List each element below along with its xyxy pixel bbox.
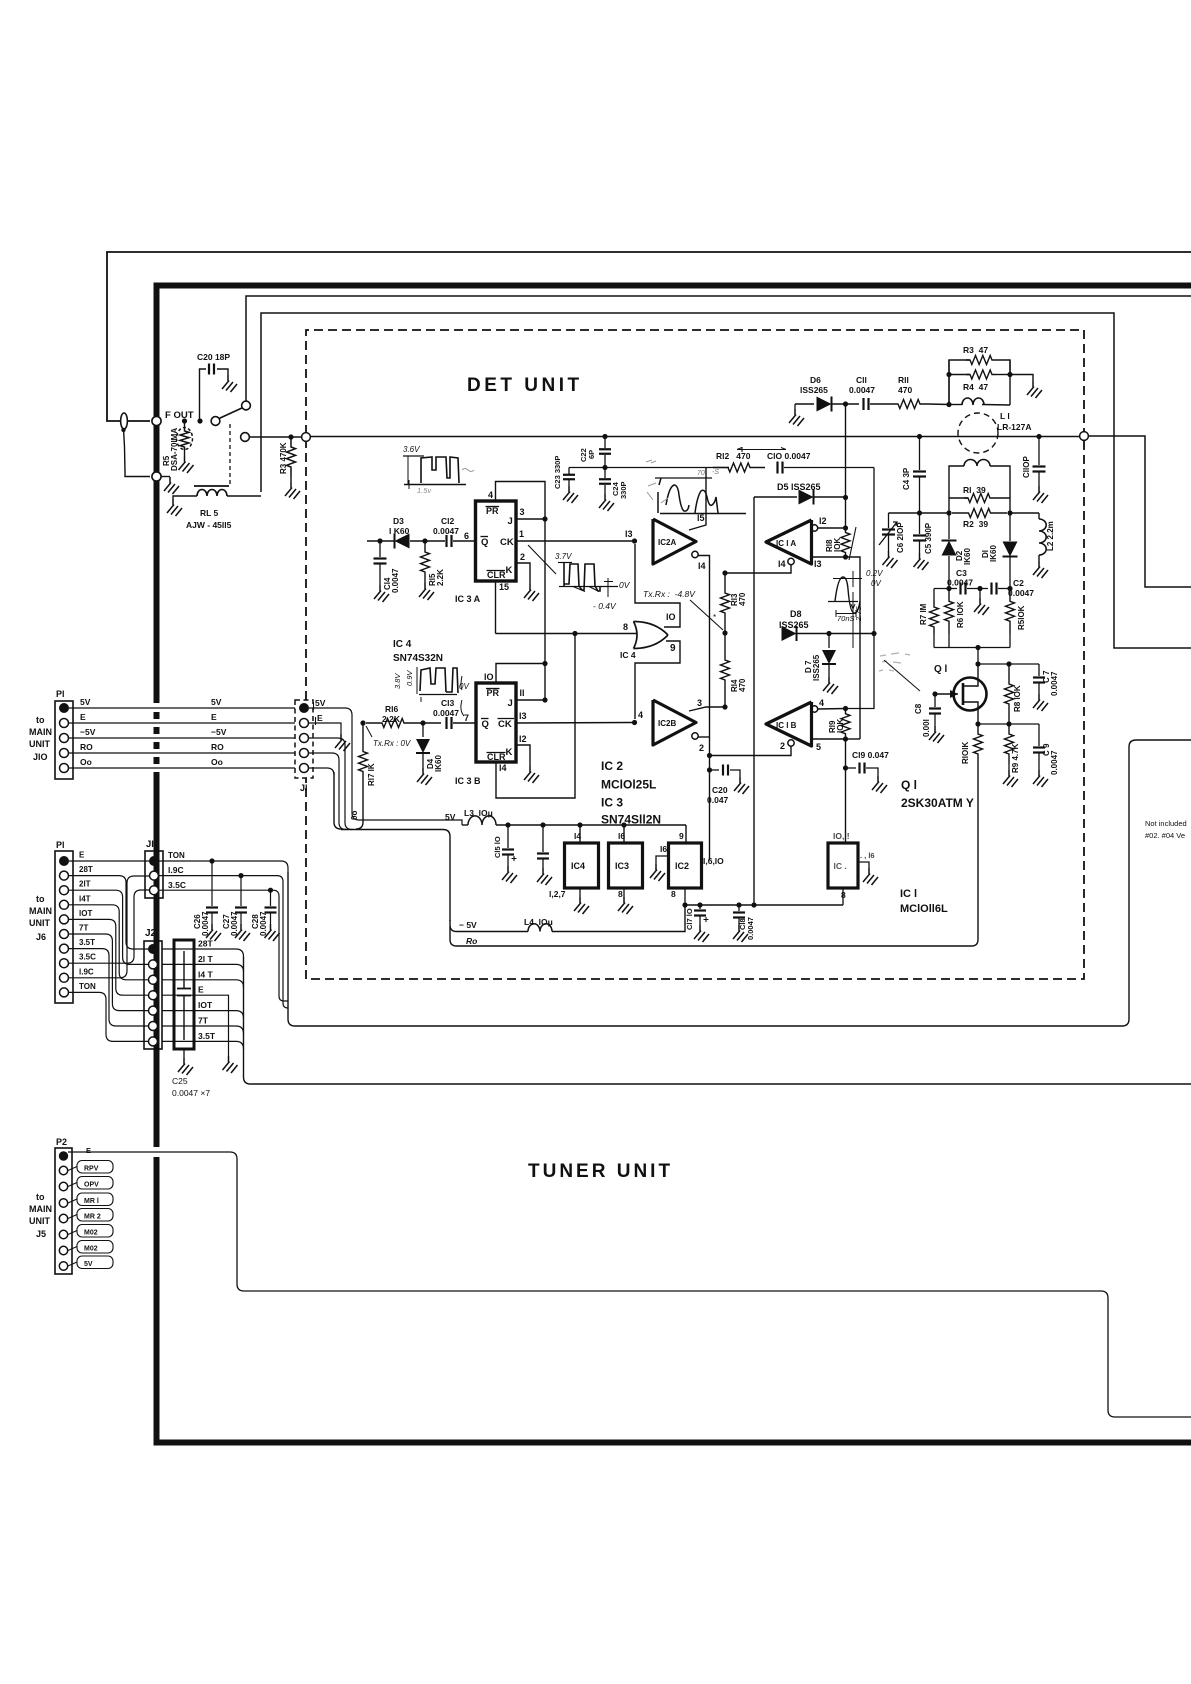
IC1A pin14 bubble to row y=573 (788, 558, 794, 564)
svg-text:Rll: Rll (898, 375, 909, 385)
IC2 pin16 ground stub (656, 856, 669, 864)
J2 E row stem to ground (162, 995, 229, 1056)
svg-text:C4 3P: C4 3P (902, 467, 911, 490)
svg-text:Tx.Rx : -4.8V: Tx.Rx : -4.8V (643, 589, 696, 599)
svg-text:RL 5: RL 5 (200, 508, 219, 518)
svg-text:M02: M02 (84, 1246, 98, 1253)
capacitor C20 18P (200, 369, 207, 421)
svg-text:l4: l4 (698, 561, 706, 571)
svg-text:0.0047: 0.0047 (391, 568, 400, 593)
svg-text:IC3: IC3 (615, 861, 629, 871)
svg-text:0.0047: 0.0047 (1050, 750, 1059, 775)
capacitor C18 0.0047 (738, 905, 740, 911)
svg-text:l3: l3 (625, 529, 633, 539)
P1 J6 pins (59, 856, 69, 866)
resistor R5 DSA-70 MA (dashed lamp) (184, 421, 186, 429)
svg-text:IC 4: IC 4 (393, 639, 412, 650)
wire A switch upper contact to right edge (246, 296, 1191, 402)
diode D1 1K60 (1009, 513, 1011, 541)
svg-text:3.5C: 3.5C (168, 880, 186, 890)
svg-text:IC 3 A: IC 3 A (455, 594, 481, 604)
svg-text:l6: l6 (618, 831, 625, 841)
IC2B pin3 output to R14 bottom (689, 707, 725, 711)
svg-text:8: 8 (671, 889, 676, 899)
switch upper contact (242, 401, 251, 410)
P1 J10 pins (59, 703, 69, 713)
svg-text:0.0047 ×7: 0.0047 ×7 (172, 1088, 210, 1098)
svg-text:L l: L l (1000, 411, 1010, 421)
svg-text:l.9C: l.9C (168, 865, 184, 875)
ground mid C3/C2 (979, 589, 981, 599)
svg-text:CLR: CLR (487, 752, 506, 762)
svg-text:Q: Q (481, 537, 488, 548)
svg-text:E: E (198, 985, 204, 995)
svg-text:MAIN: MAIN (29, 727, 52, 737)
svg-text:to: to (36, 894, 45, 904)
capacitor C28 0.0047 (270, 890, 272, 906)
svg-text:470: 470 (738, 592, 747, 606)
svg-text:8: 8 (623, 622, 628, 632)
svg-text:28T: 28T (198, 939, 213, 949)
svg-text:2.2K: 2.2K (382, 714, 401, 724)
wire outer loop top/left (to F OUT) (107, 252, 1191, 421)
svg-text:9: 9 (679, 831, 684, 841)
resistor R18 10K (841, 528, 850, 557)
vertical feedback x=754 (D5 to bottom row) (753, 497, 755, 905)
IC3 box (623, 825, 625, 843)
J1 mid 1.9C wire (159, 876, 288, 1008)
J1 5V row to rail (309, 708, 462, 825)
svg-text:0.00l: 0.00l (922, 719, 931, 737)
dashed circle of L1 (958, 413, 998, 453)
svg-text:−5V: −5V (211, 727, 227, 737)
svg-text:MClOl25L: MClOl25L (601, 778, 656, 792)
IC3A pin2 K to ground (516, 563, 530, 584)
svg-text:SN74S32N: SN74S32N (393, 653, 443, 664)
svg-text:0.0047: 0.0047 (1050, 671, 1059, 696)
svg-text:l K60: l K60 (389, 526, 410, 536)
svg-text:5V: 5V (211, 697, 222, 707)
svg-text:0.0047: 0.0047 (230, 911, 239, 936)
svg-text:IC 2: IC 2 (601, 759, 623, 773)
svg-text:Rl6: Rl6 (385, 704, 399, 714)
svg-text:3.6V: 3.6V (403, 445, 420, 454)
svg-text:- 0.4V: - 0.4V (593, 601, 617, 611)
svg-text:IC4: IC4 (571, 861, 585, 871)
resistor R19 10K (841, 709, 850, 740)
svg-text:5V: 5V (315, 698, 326, 708)
svg-text:R5lOK: R5lOK (1017, 605, 1026, 630)
switch blade (219, 408, 243, 419)
J1 DET pins (299, 703, 309, 713)
svg-text:C6 2lOP: C6 2lOP (896, 522, 905, 553)
svg-text:0.0047: 0.0047 (746, 917, 755, 940)
svg-text:1.5v: 1.5v (417, 486, 432, 495)
svg-text:2lT: 2lT (79, 880, 91, 889)
P1 J6 wires 3.5C 1.9C up to J1 mid (69, 890, 150, 963)
Q1 source node row (975, 721, 980, 726)
IC4 box (579, 825, 581, 843)
svg-text:l2: l2 (819, 516, 827, 526)
inductor L1 secondary winding (949, 466, 964, 498)
svg-text:R4 47: R4 47 (963, 382, 988, 392)
P2 pins (59, 1151, 68, 1160)
svg-text:0.0047: 0.0047 (433, 526, 459, 536)
node J1-E row (360, 720, 365, 725)
svg-text:4: 4 (819, 698, 824, 708)
OR gate output 10 loop up to IC2A input node (635, 544, 680, 627)
capacitor C8 0.001 (932, 691, 937, 696)
svg-text:E: E (317, 713, 323, 723)
svg-text:AJW - 45ll5: AJW - 45ll5 (186, 520, 232, 530)
svg-text:R3 47: R3 47 (963, 345, 988, 355)
svg-text:MAIN: MAIN (29, 906, 52, 916)
svg-text:R9 4.7K: R9 4.7K (1011, 743, 1020, 773)
svg-text:E: E (86, 1146, 91, 1155)
ground at R3/R4 right (1010, 375, 1033, 382)
ground at lower border node (161, 476, 170, 478)
IC1B pin5 wire (812, 738, 846, 740)
OR gate output 9 loop down to IC2B input node (635, 641, 680, 719)
faint annotation near Q1 gate (879, 653, 910, 671)
IC1A pin12 bubble and wire (811, 525, 817, 531)
svg-text:lSS265: lSS265 (812, 654, 821, 681)
J1 mid pins (149, 856, 159, 866)
svg-text:lOT: lOT (79, 909, 92, 918)
svg-text:70: 70 (697, 470, 705, 477)
svg-text:E: E (80, 712, 86, 722)
P1 J6 wire E to J1 mid (69, 860, 150, 862)
diode D4 1K60 (422, 723, 424, 737)
svg-text:Not included: Not included (1145, 819, 1187, 828)
svg-text:R6 lOK: R6 lOK (956, 601, 965, 628)
switch lower contact (241, 433, 250, 442)
svg-text:0.0047: 0.0047 (259, 911, 268, 936)
resistor R5 10K (1006, 589, 1015, 635)
wire IC1A pin13 to x860 vertical (846, 557, 861, 739)
wire row y=513 right of R2 to L2 (1010, 512, 1039, 514)
svg-text:to: to (36, 715, 45, 725)
waveform sketch sine 0.2V (833, 578, 862, 580)
svg-text:TON: TON (168, 851, 185, 860)
svg-text:L2 2.2m: L2 2.2m (1046, 521, 1055, 551)
svg-text:9: 9 (670, 643, 676, 654)
svg-text:lOK: lOK (833, 538, 842, 552)
IC3B pin14 CLR down to x573 riser (496, 634, 575, 799)
svg-text:2.2K: 2.2K (436, 569, 445, 586)
svg-text:0V: 0V (619, 580, 631, 590)
svg-text:0.0047: 0.0047 (433, 708, 459, 718)
resistor R7 1M (933, 589, 935, 601)
svg-text:2.75: 2.75 (854, 606, 863, 622)
Ro long wire (450, 926, 972, 946)
svg-text:l2: l2 (519, 734, 527, 744)
svg-text:PR: PR (486, 506, 499, 516)
svg-text:0V: 0V (871, 579, 881, 588)
svg-text:0.0047: 0.0047 (849, 385, 875, 395)
svg-text:UNIT: UNIT (29, 1216, 50, 1226)
svg-text:Oo: Oo (211, 757, 223, 767)
svg-text:DET UNIT: DET UNIT (467, 375, 583, 396)
resistor R15 2.2K (421, 541, 430, 583)
svg-text:IC l B: IC l B (776, 721, 797, 730)
vertical x=874 (C10 to D8 row to IC1B pin4) (846, 468, 875, 709)
IC1A pin13 wire (812, 556, 846, 558)
wire C main signal exit (y=587) (1088, 436, 1191, 587)
svg-text:l.9C: l.9C (79, 967, 94, 976)
svg-text:lK60: lK60 (963, 548, 972, 565)
capacitor C25 0.0047x7 box (174, 940, 194, 1049)
resistor R6 10K (945, 589, 954, 635)
svg-text:LR-127A: LR-127A (997, 422, 1031, 432)
svg-text:C25: C25 (172, 1076, 188, 1086)
connector J1 (DET) dashed box (295, 700, 313, 778)
bottom distribution row y=905 (685, 904, 843, 906)
svg-text:5: 5 (816, 742, 821, 752)
svg-text:l4: l4 (778, 559, 786, 569)
svg-text:E: E (211, 712, 217, 722)
svg-text:UNIT: UNIT (29, 918, 50, 928)
relay actuation dashed link (229, 424, 231, 485)
IC1 right pins to ground (858, 862, 869, 868)
resistor R10 1K and Ro return (974, 724, 983, 764)
svg-text:Ro: Ro (466, 936, 477, 946)
svg-text:7T: 7T (198, 1016, 209, 1026)
capacitor C27 0.0047 (240, 876, 242, 906)
buffer IC2B triangle (653, 700, 696, 745)
svg-text:IC l: IC l (900, 888, 917, 900)
resistor R17 1K (359, 723, 368, 800)
svg-text:5V: 5V (80, 697, 91, 707)
IC2A complement output bubble (692, 551, 698, 557)
J1 Oo row down (309, 768, 334, 775)
svg-text:l,6,lO: l,6,lO (703, 856, 724, 866)
svg-text:J6: J6 (36, 932, 46, 942)
svg-text:UNIT: UNIT (29, 739, 50, 749)
IC1B pin4 bubble and wire (811, 706, 817, 712)
svg-text:3.5T: 3.5T (79, 938, 95, 947)
vertical x=845 (D6 row down to IC1) (845, 404, 847, 528)
svg-text:R3 470K: R3 470K (279, 442, 288, 474)
svg-text:MAIN: MAIN (29, 1204, 52, 1214)
svg-text:l3: l3 (519, 711, 527, 721)
P2 E wire route to right edge (68, 1152, 1191, 1417)
svg-text:Cl2: Cl2 (441, 516, 455, 526)
svg-text:6: 6 (464, 531, 469, 541)
svg-text:Pl: Pl (56, 689, 65, 699)
OR gate IC4 (634, 622, 669, 649)
svg-text:C8: C8 (914, 703, 923, 714)
IC3A pin4 PR top loop to J pin3 (496, 482, 546, 520)
svg-text:Cl5 lO: Cl5 lO (493, 836, 502, 858)
svg-text:0.9V: 0.9V (405, 670, 414, 686)
svg-text:#02. #04 Ve: #02. #04 Ve (1145, 831, 1185, 840)
svg-text:0.0047: 0.0047 (201, 911, 210, 936)
svg-text:IC2A: IC2A (658, 538, 676, 547)
svg-text:C5 390P: C5 390P (924, 522, 933, 554)
J1 mid 3.5C wire (159, 890, 288, 1001)
wire row y=513 to L2 (889, 512, 950, 514)
svg-text:C3: C3 (956, 568, 967, 578)
svg-text:R8 lOK: R8 lOK (1013, 685, 1022, 712)
svg-text:D3: D3 (393, 516, 404, 526)
svg-text:J: J (508, 698, 513, 709)
svg-text:D8: D8 (790, 609, 802, 619)
resistor R14 470 (721, 633, 730, 707)
junction dots F OUT area (182, 418, 187, 423)
svg-text:E: E (79, 851, 85, 860)
node D8 row at R13/R14 (722, 630, 727, 635)
svg-text:0.0047: 0.0047 (1008, 588, 1034, 598)
svg-text:TUNER UNIT: TUNER UNIT (528, 1161, 673, 1182)
svg-text:2SK30ATM Y: 2SK30ATM Y (901, 796, 974, 810)
svg-text:RO: RO (80, 742, 93, 752)
OR gate input 8 wire from IC3A CLR (496, 633, 638, 635)
svg-text:Rl 39: Rl 39 (963, 485, 986, 495)
svg-text:M02: M02 (84, 1230, 98, 1237)
resistor R1 39 parallel loop (949, 498, 968, 513)
svg-text:− 5V: − 5V (459, 920, 477, 930)
svg-text:lO: lO (484, 672, 494, 682)
IC3A pin15 CLR down (495, 581, 497, 634)
vertical x=845 down to IC1 top (845, 739, 847, 843)
svg-text:ll: ll (520, 688, 525, 698)
svg-text:RPV: RPV (84, 1166, 99, 1173)
svg-text:Q: Q (482, 719, 489, 730)
IC3A pin3 J output (516, 518, 545, 520)
svg-text:CK: CK (498, 719, 512, 730)
svg-text:IC 3 B: IC 3 B (455, 776, 481, 786)
flip-flop IC3B box (476, 683, 516, 762)
C25 ground (183, 1049, 185, 1058)
wire pin5 row to x860 (846, 738, 861, 740)
svg-text:lOT: lOT (198, 1000, 213, 1010)
capacitor C2 0.0047 (990, 583, 992, 595)
svg-text:Cl7 lO: Cl7 lO (685, 908, 694, 930)
main signal wire F OUT line y=436 (249, 436, 302, 438)
svg-text:3.5C: 3.5C (79, 953, 96, 962)
capacitor C24 330P (604, 468, 606, 479)
svg-text:Rl7 lK: Rl7 lK (367, 763, 376, 786)
svg-text:OPV: OPV (84, 1182, 99, 1189)
svg-text:MR 2: MR 2 (84, 1214, 101, 1221)
svg-text:K: K (506, 565, 513, 576)
svg-text:lO, !: lO, ! (833, 831, 850, 841)
svg-text:2: 2 (699, 743, 704, 753)
amplifier IC1B triangle (points left) (766, 702, 812, 746)
wire B relay coil to right edge (exit y=648) (261, 313, 1191, 648)
svg-text:DSA-70lMA: DSA-70lMA (170, 428, 179, 471)
svg-text:3: 3 (520, 507, 525, 517)
svg-text:CllOP: CllOP (1022, 456, 1031, 478)
svg-text:C20: C20 (712, 785, 728, 795)
IC3B pin12 K to ground (516, 745, 530, 766)
svg-text:2: 2 (520, 552, 525, 562)
svg-text:RlOlK: RlOlK (961, 742, 970, 764)
capacitor C15 10 electrolytic (507, 825, 509, 848)
capacitor C9 0.0047 (1038, 724, 1040, 746)
svg-text:K: K (506, 747, 513, 758)
capacitor C1 10P (1036, 434, 1041, 439)
resistor R8 10K (1005, 664, 1014, 724)
svg-text:6P: 6P (587, 450, 596, 459)
svg-text:to: to (36, 1192, 45, 1202)
resistor R13 470 (722, 570, 727, 575)
svg-text:l5: l5 (697, 513, 705, 523)
svg-text:3: 3 (697, 698, 702, 708)
svg-text:lO: lO (666, 612, 676, 622)
svg-text:0.047: 0.047 (707, 795, 729, 805)
svg-text:P2: P2 (56, 1137, 67, 1147)
svg-text:Q l: Q l (934, 664, 948, 675)
svg-text:28T: 28T (79, 865, 93, 874)
svg-text:IC l A: IC l A (776, 539, 796, 548)
svg-text:3.7V: 3.7V (555, 552, 572, 561)
svg-text:lSS265: lSS265 (800, 385, 828, 395)
svg-text:l6: l6 (660, 844, 667, 854)
waveform sketch burst near C24 (646, 460, 656, 463)
svg-text:330P: 330P (619, 481, 628, 499)
svg-text:IC 4: IC 4 (620, 650, 636, 660)
inductor L1 LR-127A (946, 402, 951, 407)
diode D7 1SS265 shunt (828, 634, 830, 649)
wire D (J1 bundle to right edge exit y=740) (287, 872, 289, 1019)
Q1 drain node row (977, 648, 979, 665)
svg-text:70nS: 70nS (837, 614, 855, 623)
svg-text:Pl: Pl (56, 840, 65, 850)
IC3A pin1 CK wire to IC2A (516, 540, 632, 542)
capacitor unlabeled at rail (542, 825, 544, 852)
svg-text:5V: 5V (84, 1261, 93, 1268)
svg-text:MR l: MR l (84, 1198, 99, 1205)
node F OUT on thick border (152, 416, 161, 425)
trimmer capacitor C6 210P (888, 513, 890, 528)
capacitor C22 6P (602, 434, 607, 439)
svg-text:R2 39: R2 39 (963, 519, 988, 529)
svg-text:2: 2 (780, 741, 785, 751)
J1 RO row down (309, 753, 346, 830)
bottom row y=647 (934, 647, 1010, 649)
svg-text:J: J (508, 516, 513, 527)
vertical J-bus x=545 (544, 519, 546, 663)
svg-text:RO: RO (211, 742, 224, 752)
svg-text:470: 470 (738, 678, 747, 692)
5V rail wire (496, 824, 686, 826)
svg-text:D6: D6 (810, 375, 821, 385)
svg-text:4: 4 (638, 710, 643, 720)
svg-text:MClOll6L: MClOll6L (900, 903, 948, 915)
svg-text:7T: 7T (79, 924, 88, 933)
J1 mid TON wire (159, 861, 288, 872)
svg-text:lC .: lC . (834, 861, 847, 871)
capacitor C17 10 electrolytic (699, 905, 701, 909)
IC2A pin13 input node (632, 538, 637, 543)
svg-text:15: 15 (499, 582, 509, 592)
svg-text:TON: TON (79, 982, 96, 991)
node lower on thick border with ground (152, 472, 161, 481)
IC1 box (828, 843, 858, 888)
svg-text:4: 4 (488, 490, 493, 500)
relay RL5 coil (194, 485, 229, 487)
capacitor C7 0.0047 (1038, 664, 1040, 676)
connector bead on F OUT feed wire (121, 413, 128, 429)
J1 -5V row down (309, 738, 352, 830)
svg-text:l4: l4 (574, 831, 581, 841)
svg-text:ClO 0.0047: ClO 0.0047 (767, 451, 811, 461)
svg-text:Rl2 470: Rl2 470 (716, 451, 751, 461)
svg-text:l4T: l4T (79, 894, 91, 903)
svg-text:lC2: lC2 (675, 861, 689, 871)
